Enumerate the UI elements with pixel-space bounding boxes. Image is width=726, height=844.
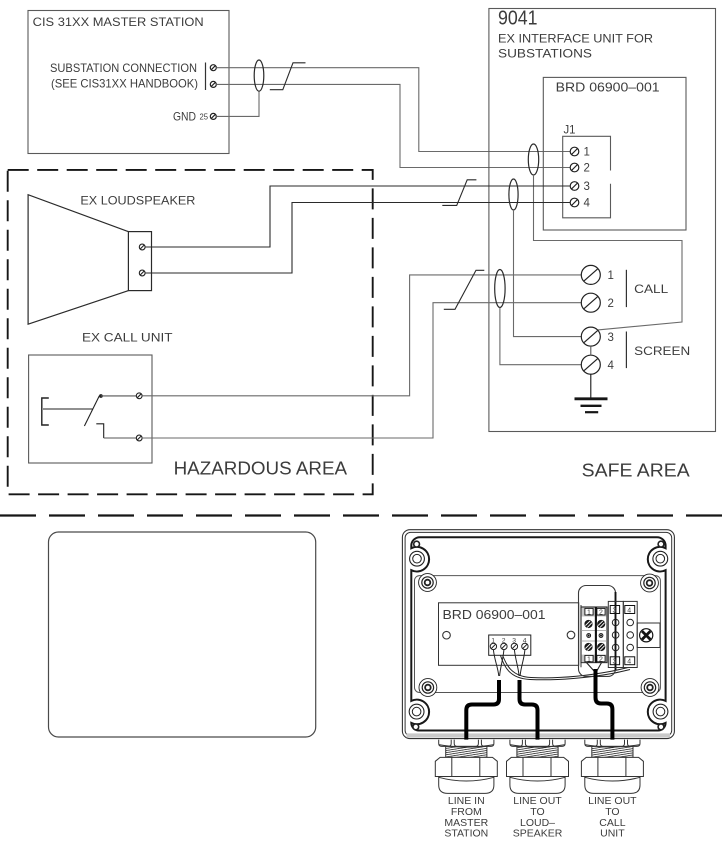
SECTION: divider xyxy=(0,514,726,516)
wire switch to call terminal A xyxy=(101,395,136,397)
svg-text:4: 4 xyxy=(608,360,615,372)
svg-text:2: 2 xyxy=(584,163,590,175)
svg-text:GND: GND xyxy=(173,109,196,123)
svg-text:1: 1 xyxy=(584,147,590,159)
hazardous area dashed boundary xyxy=(8,170,373,494)
corner screw bottom-left xyxy=(409,704,424,730)
V wires from DIN block to call-unit cable xyxy=(587,663,602,672)
wire switch to call terminal B xyxy=(104,437,137,439)
wire link terminal 3 to terminal 4 xyxy=(590,346,592,356)
screen slash symbol at master cable xyxy=(270,63,306,90)
svg-text:STATION: STATION xyxy=(444,828,488,840)
svg-text:(SEE CIS31XX HANDBOOK): (SEE CIS31XX HANDBOOK) xyxy=(51,76,198,90)
wire loudspeaker top to J1 pin 3 xyxy=(145,186,570,247)
svg-text:9041: 9041 xyxy=(498,7,538,30)
lid screw bottom-right xyxy=(641,679,659,697)
board mounting hole left xyxy=(443,631,451,639)
svg-text:BRD 06900–001: BRD 06900–001 xyxy=(443,608,546,622)
DIN terminal cover rounded outline xyxy=(579,586,616,677)
J1 pin 2 xyxy=(570,163,590,175)
cable screen ellipse at master xyxy=(254,60,264,91)
J1 pin 1 xyxy=(570,147,590,159)
lid screw top-left xyxy=(419,574,437,592)
cable screen ellipse at J1 pins 1-2 xyxy=(528,144,538,175)
connector J1 outline xyxy=(563,125,611,218)
earth stud phillips screw xyxy=(640,629,653,642)
svg-text:SCREEN: SCREEN xyxy=(634,346,690,358)
cable gland (loudspeaker) xyxy=(507,740,569,794)
jumper wire pair board block to DIN terminals xyxy=(501,656,631,680)
wire screen drain cable A to terminal 3 xyxy=(534,175,683,330)
enclosure outer second outline xyxy=(405,532,672,736)
box EX call unit xyxy=(29,330,174,463)
lid screw top-right xyxy=(641,574,659,592)
wire call unit A to terminal 1 xyxy=(142,275,581,396)
board terminal screws 1-4 xyxy=(490,643,528,649)
terminal 3 SCREEN xyxy=(581,327,614,346)
pushbutton switch S1 in call unit xyxy=(42,394,104,438)
cable gland (line in) xyxy=(435,740,497,794)
cable line-in from master station xyxy=(466,680,499,746)
board mounting hole right xyxy=(567,631,575,639)
box 9041 EX interface unit xyxy=(489,7,716,432)
corner screw top-left xyxy=(410,541,425,566)
wire master GND to cable screen xyxy=(216,91,259,116)
svg-text:1: 1 xyxy=(608,270,614,282)
label substation connection xyxy=(50,61,206,91)
svg-text:EX CALL UNIT: EX CALL UNIT xyxy=(82,330,173,344)
cable line-out to call unit xyxy=(596,669,613,746)
svg-text:1: 1 xyxy=(587,656,591,663)
svg-text:2: 2 xyxy=(608,298,614,310)
call unit terminal A xyxy=(136,393,142,399)
lid screw bottom-left xyxy=(419,679,437,697)
svg-text:3: 3 xyxy=(584,181,590,193)
dashed section divider line xyxy=(0,514,726,516)
svg-text:SUBSTATION CONNECTION: SUBSTATION CONNECTION xyxy=(50,61,197,75)
ground symbol below terminal 4 xyxy=(575,374,608,412)
svg-text:3: 3 xyxy=(613,659,617,666)
svg-text:CIS 31XX MASTER STATION: CIS 31XX MASTER STATION xyxy=(33,15,204,29)
svg-text:CALL: CALL xyxy=(634,284,669,296)
blank panel rounded rectangle (left) xyxy=(49,532,316,737)
corner screw bottom-right xyxy=(653,704,668,730)
J1 pin 3 xyxy=(570,181,590,193)
terminal master GND xyxy=(210,113,216,119)
label GND 25 xyxy=(173,109,209,123)
svg-text:4: 4 xyxy=(627,607,631,614)
wires board terminals to cables xyxy=(493,650,525,676)
wire call unit B to terminal 2 xyxy=(142,303,581,438)
cable line-out to loudspeaker xyxy=(520,680,538,746)
J1 pin 4 xyxy=(570,198,590,210)
DIN block 1-2 test points xyxy=(587,634,603,638)
terminal 1 CALL xyxy=(581,265,614,284)
box BRD 06900-001 xyxy=(543,77,686,230)
label line out to call unit xyxy=(588,795,637,840)
enclosure bottom wall gray band xyxy=(407,733,671,737)
svg-text:J1: J1 xyxy=(564,125,576,137)
svg-text:25: 25 xyxy=(200,113,209,122)
circuit board BRD 06900-001 xyxy=(439,603,582,667)
wire loudspeaker bottom to J1 pin 4 xyxy=(145,203,570,274)
label line out to loudspeaker xyxy=(513,795,563,840)
svg-text:SAFE AREA: SAFE AREA xyxy=(582,461,690,481)
enclosure lid outline with corner ears xyxy=(411,537,665,730)
wire master A to J1 pin 1 xyxy=(216,68,570,152)
cable screen ellipse at J1 pins 3-4 xyxy=(509,179,518,210)
lid recess inner rectangle xyxy=(415,576,661,693)
screen slash symbol at call unit cable xyxy=(444,270,485,309)
bracket and label CALL xyxy=(626,270,668,307)
svg-text:3: 3 xyxy=(613,607,617,614)
loudspeaker LS1 xyxy=(28,194,196,325)
wire screen drain cable B to terminal 3 xyxy=(514,210,582,337)
corner screw top-right xyxy=(653,541,668,566)
cable screen ellipse at call unit cable xyxy=(495,270,505,308)
terminal 2 CALL xyxy=(581,293,614,312)
wire screen drain call cable to terminal 4 xyxy=(500,308,582,365)
svg-text:UNIT: UNIT xyxy=(600,828,625,840)
box CIS 31XX master station xyxy=(28,11,229,154)
terminal 4 SCREEN xyxy=(581,355,614,374)
loudspeaker terminal bottom xyxy=(139,270,145,276)
terminal master substation A xyxy=(210,65,216,71)
svg-text:2: 2 xyxy=(599,656,603,663)
board terminal block J1 xyxy=(489,635,531,655)
wire master B to J1 pin 2 xyxy=(216,84,570,167)
earth stud plate xyxy=(637,623,660,648)
svg-text:EX INTERFACE UNIT FOR: EX INTERFACE UNIT FOR xyxy=(498,32,653,46)
DIN terminal block columns 1-2 xyxy=(581,607,607,663)
enclosure outer outline xyxy=(402,530,674,739)
svg-text:BRD 06900–001: BRD 06900–001 xyxy=(556,80,660,95)
svg-text:HAZARDOUS AREA: HAZARDOUS AREA xyxy=(174,458,348,478)
DIN terminal block column 4 xyxy=(623,601,637,667)
terminal master substation B xyxy=(210,81,216,87)
call unit terminal B xyxy=(136,435,142,441)
svg-text:2: 2 xyxy=(599,610,603,617)
screen slash symbol at loudspeaker cable xyxy=(442,180,476,206)
svg-text:4: 4 xyxy=(627,659,631,666)
svg-text:SPEAKER: SPEAKER xyxy=(513,828,563,840)
cable gland (call unit) xyxy=(581,740,643,794)
svg-text:3: 3 xyxy=(608,332,614,344)
SECTION: top schematic xyxy=(8,7,716,495)
svg-text:1: 1 xyxy=(587,610,591,617)
svg-text:SUBSTATIONS: SUBSTATIONS xyxy=(498,47,592,61)
loudspeaker terminal top xyxy=(139,244,145,250)
label line in from master station xyxy=(444,795,488,840)
DIN terminal block column 3 xyxy=(608,601,623,667)
DIN block 1-2 screw terminals (hatched) xyxy=(584,620,605,651)
svg-text:EX LOUDSPEAKER: EX LOUDSPEAKER xyxy=(80,194,195,208)
svg-text:4: 4 xyxy=(584,198,591,210)
bracket and label SCREEN xyxy=(626,332,690,369)
